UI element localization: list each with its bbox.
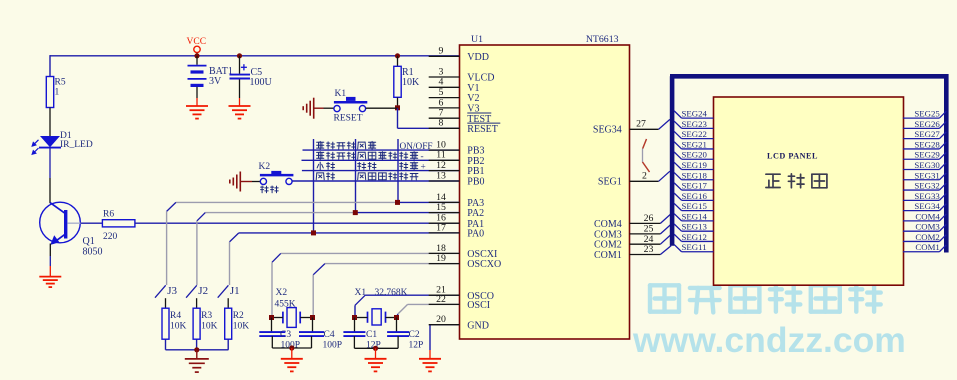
svg-text:19: 19 [436, 253, 446, 264]
svg-text:C3: C3 [280, 330, 291, 340]
svg-text:8: 8 [439, 118, 444, 129]
label key row2 [317, 152, 424, 162]
wire row pin11 [302, 159, 460, 161]
svg-text:VCC: VCC [187, 37, 207, 47]
wire panel right SEG32 [903, 181, 946, 191]
svg-text:C2: C2 [409, 330, 420, 340]
svg-text:1: 1 [55, 88, 60, 98]
svg-text:23: 23 [644, 244, 654, 255]
svg-text:SEG28: SEG28 [914, 139, 940, 149]
node PA0/col1 junction [311, 230, 316, 235]
wire panel left SEG19 [674, 160, 713, 170]
svg-text:26: 26 [644, 213, 654, 224]
pin 19 OSCXO [429, 253, 502, 270]
wire panel right SEG27 [903, 129, 946, 139]
bus squiggle (omitted wires) [643, 139, 650, 172]
wire panel left SEG22 [674, 129, 713, 139]
svg-text:C1: C1 [366, 330, 377, 340]
svg-text:2: 2 [642, 171, 647, 182]
pin 21 OSCO [429, 285, 494, 302]
resistor R4 10K [162, 308, 187, 339]
svg-text:www.cndzz.com: www.cndzz.com [632, 320, 906, 360]
svg-text:SEG27: SEG27 [914, 129, 940, 139]
ground under Q1 [39, 277, 61, 288]
wire panel left SEG18 [674, 170, 713, 180]
wire panel left SEG12 [674, 232, 713, 242]
wire J3 to R4 [165, 298, 167, 308]
svg-text:SEG25: SEG25 [914, 109, 940, 119]
svg-text:SEG34: SEG34 [914, 201, 940, 211]
svg-text:3V: 3V [209, 76, 222, 87]
svg-text:RESET: RESET [467, 124, 498, 135]
pin 3 VLCD [429, 66, 495, 83]
svg-text:COM1: COM1 [915, 242, 939, 252]
wire pulldown bottom rail [166, 349, 229, 351]
wire R6 to PA1 pin16 [135, 222, 460, 224]
pin 14 PA3 [429, 192, 484, 209]
node X2 ground junction [289, 345, 294, 350]
wire PA0 route to J1 [230, 233, 460, 285]
wire row pin12 [302, 170, 460, 172]
svg-text:9: 9 [439, 46, 444, 57]
svg-text:SEG20: SEG20 [682, 150, 708, 160]
node VCC junction [194, 53, 199, 58]
wire panel right SEG31 [903, 170, 946, 180]
svg-text:SEG21: SEG21 [682, 139, 707, 149]
svg-text:SEG22: SEG22 [682, 129, 707, 139]
bus frame thick [670, 74, 946, 253]
node X2 right junction [310, 315, 315, 320]
ground at K1 (sideways) [303, 98, 314, 119]
resistor R2 10K [225, 308, 250, 339]
pin 18 OSCXI [429, 243, 498, 260]
wire panel right COM1 [903, 242, 946, 252]
svg-text:VDD: VDD [467, 52, 489, 63]
wire panel right SEG26 [903, 119, 946, 129]
wire panel left SEG14 [674, 211, 713, 221]
svg-text:R3: R3 [201, 311, 212, 321]
wire X1 bottom [354, 347, 398, 349]
wire panel right COM3 [903, 222, 946, 232]
wire panel left SEG23 [674, 119, 713, 129]
svg-text:8050: 8050 [83, 247, 103, 258]
pin 8 RESET [429, 118, 501, 135]
svg-text:K1: K1 [335, 89, 347, 99]
svg-text:PA0: PA0 [467, 229, 484, 240]
wire PA2 route to J2 [197, 213, 460, 285]
wire PA3 route to J3 [167, 202, 460, 285]
svg-text:SEG34: SEG34 [593, 125, 622, 136]
wire ground to K2 [252, 181, 260, 183]
svg-text:27: 27 [636, 119, 646, 130]
svg-text:R6: R6 [103, 210, 114, 220]
wire panel right COM2 [903, 232, 946, 242]
capacitor C2 12P [387, 318, 423, 351]
ground at K2 (sideways) [230, 172, 241, 192]
pin 27 SEG34 wire [630, 119, 670, 130]
pin 5 V2 [429, 87, 480, 104]
wire panel right SEG34 [903, 201, 946, 211]
pin 24 COM wire [630, 234, 672, 245]
svg-text:R5: R5 [55, 78, 66, 88]
wire R2 bottom [227, 339, 229, 350]
svg-text:SEG17: SEG17 [682, 181, 708, 191]
transistor Q1 8050 [40, 202, 103, 257]
svg-text:COM4: COM4 [915, 211, 940, 221]
pin 22 OSCI [429, 294, 490, 311]
svg-text:22: 22 [436, 294, 446, 305]
svg-text:15: 15 [436, 202, 446, 213]
node PA2/col2 junction [353, 210, 358, 215]
svg-text:OSCI: OSCI [467, 300, 490, 311]
node X2 left junction [269, 315, 274, 320]
svg-text:ON/OFF: ON/OFF [400, 142, 433, 152]
node C5 junction [237, 53, 242, 58]
diode D1 IR_LED [32, 131, 93, 154]
svg-text:COM4: COM4 [594, 219, 622, 230]
svg-text:OSCXO: OSCXO [467, 259, 501, 270]
svg-text:10K: 10K [201, 321, 218, 331]
svg-text:SEG15: SEG15 [682, 201, 708, 211]
resistor R1 10K [394, 56, 420, 108]
wire panel left SEG17 [674, 181, 713, 191]
svg-text:32.768K: 32.768K [375, 288, 408, 298]
wire panel left SEG20 [674, 150, 713, 160]
svg-text:12: 12 [436, 160, 446, 171]
LCD panel body [714, 97, 904, 285]
svg-text:SEG1: SEG1 [598, 177, 622, 188]
svg-text:GND: GND [467, 320, 489, 331]
label 正视图 [766, 174, 827, 188]
label key row4 [316, 173, 418, 180]
wire panel left SEG21 [674, 139, 713, 149]
svg-text:X1: X1 [355, 288, 367, 298]
wire panel right SEG28 [903, 139, 946, 149]
jumper J2 [186, 285, 208, 298]
wire pin20 GND route [430, 325, 460, 359]
label key row3 [317, 162, 426, 173]
label key row1 [317, 141, 433, 151]
pin 7 TEST [429, 108, 492, 125]
svg-text:SEG24: SEG24 [682, 109, 708, 119]
svg-text:SEG18: SEG18 [682, 170, 708, 180]
ground at pin20 [419, 359, 441, 372]
svg-text:PB0: PB0 [467, 177, 484, 188]
svg-text:13: 13 [436, 170, 446, 181]
node X1 ground junction [373, 346, 378, 351]
svg-text:J3: J3 [167, 285, 177, 297]
svg-text:10K: 10K [233, 321, 250, 331]
battery BAT1 3V [188, 56, 233, 106]
pin 9 VDD [429, 46, 489, 63]
pin 26 COM wire [630, 213, 672, 224]
ground under X2 [291, 348, 293, 359]
crystal X1 32.768K [355, 288, 408, 325]
svg-text:SEG14: SEG14 [682, 211, 708, 221]
svg-text:20: 20 [436, 314, 446, 325]
wire key column 1 [313, 139, 315, 233]
svg-text:PA2: PA2 [467, 208, 484, 219]
svg-text:R2: R2 [233, 311, 244, 321]
wire panel left SEG16 [674, 191, 713, 201]
node X1 left junction [352, 315, 357, 320]
wire panel left SEG13 [674, 222, 713, 232]
svg-text:K2: K2 [259, 162, 271, 172]
svg-text:NT6613: NT6613 [586, 34, 619, 45]
node R1 bottom junction [395, 105, 400, 110]
pin 15 PA2 [429, 202, 484, 219]
svg-text:SEG30: SEG30 [914, 160, 940, 170]
wire panel right SEG29 [903, 150, 946, 160]
svg-text:COM3: COM3 [915, 222, 940, 232]
svg-text:12P: 12P [409, 341, 424, 351]
wire R3 bottom [196, 339, 198, 350]
wire pin21 OSCO route [355, 295, 460, 316]
svg-text:SEG31: SEG31 [914, 170, 939, 180]
switch K2 时钟 [259, 162, 294, 193]
wire left rail top [49, 55, 51, 76]
wire Q1 emitter to ground [49, 244, 51, 257]
node PA3/col3 junction [395, 200, 400, 205]
wire D1 to Q1 [49, 148, 51, 178]
svg-text:SEG13: SEG13 [682, 222, 708, 232]
svg-text:J1: J1 [230, 285, 240, 297]
svg-text:SEG12: SEG12 [682, 232, 707, 242]
wire row pin10 [303, 149, 460, 151]
pin 6 V3 [429, 97, 480, 114]
svg-text:C4: C4 [324, 330, 335, 340]
svg-text:10K: 10K [170, 321, 187, 331]
svg-text:100U: 100U [250, 77, 273, 88]
pin 25 COM wire [630, 224, 672, 235]
svg-text:LCD PANEL: LCD PANEL [767, 151, 818, 160]
svg-text:SEG26: SEG26 [914, 119, 940, 129]
svg-text:SEG32: SEG32 [914, 181, 939, 191]
pin 11 PB2 [429, 150, 485, 167]
power VCC [187, 37, 207, 56]
wire R5 to D1 [49, 108, 51, 137]
pin 20 GND [429, 314, 489, 331]
capacitor C5 100U polarized [230, 56, 273, 106]
resistor R5 1 [46, 77, 66, 108]
resistor R3 10K [193, 308, 218, 339]
svg-text:J2: J2 [198, 285, 208, 297]
svg-text:+: + [421, 162, 426, 172]
wire row pin13 [292, 180, 459, 182]
wire panel right SEG33 [903, 191, 946, 201]
svg-text:SEG23: SEG23 [682, 119, 708, 129]
svg-text:COM2: COM2 [915, 232, 939, 242]
switch K1 RESET [334, 89, 368, 124]
svg-text:SEG29: SEG29 [914, 150, 940, 160]
wire panel right COM4 [903, 211, 946, 221]
pin 13 PB0 [429, 170, 485, 187]
svg-text:COM1: COM1 [594, 250, 622, 261]
ground under X1 [375, 348, 377, 359]
capacitor C4 100P [299, 318, 342, 351]
jumper J1 [218, 285, 240, 298]
pin 10 PB3 [429, 140, 485, 157]
wire J1 to R2 [227, 298, 229, 308]
wire panel left SEG24 [674, 109, 713, 119]
svg-text:-: - [421, 152, 424, 162]
svg-text:R4: R4 [170, 311, 181, 321]
crystal X2 455K [272, 288, 313, 328]
wire panel left SEG11 [674, 242, 713, 252]
wire pin22 OSCI route [397, 304, 460, 316]
wire junction to pin8 [397, 108, 399, 128]
ground under pulldown resistors [196, 350, 198, 359]
wire panel right SEG25 [903, 109, 946, 119]
wire pin18 OSCXI route [272, 253, 460, 316]
svg-text:U1: U1 [471, 34, 483, 45]
node X1 right junction [394, 315, 399, 320]
wire panel right SEG30 [903, 160, 946, 170]
node R1 top junction [395, 53, 400, 58]
svg-text:SEG11: SEG11 [682, 242, 707, 252]
pin 12 PB1 [429, 160, 485, 177]
pin 2 SEG1 wire [630, 171, 670, 182]
wire panel left SEG15 [674, 201, 713, 211]
svg-text:17: 17 [436, 222, 446, 233]
wire ground to K1 [324, 107, 334, 109]
svg-text:10K: 10K [402, 77, 420, 88]
wire key column 3 [397, 139, 399, 202]
svg-text:SEG19: SEG19 [682, 160, 708, 170]
pin 16 PA1 [429, 213, 484, 230]
svg-text:220: 220 [103, 232, 118, 242]
capacitor C1 12P [343, 318, 380, 351]
wire K1 to junction [366, 107, 398, 109]
wire key column 2 [355, 139, 357, 213]
ground under BAT1 [186, 106, 208, 119]
svg-text:PB1: PB1 [467, 166, 484, 177]
svg-text:Q1: Q1 [83, 236, 95, 247]
pin 23 COM wire [630, 244, 672, 255]
svg-text:X2: X2 [276, 288, 288, 298]
svg-text:100P: 100P [323, 340, 343, 350]
wire J2 to R3 [196, 298, 198, 308]
svg-text:RESET: RESET [334, 114, 363, 124]
pin 17 PA0 [429, 222, 484, 239]
wire VCC top rail [50, 55, 460, 57]
resistor R6 220 [102, 210, 134, 243]
jumper J3 [155, 285, 177, 298]
wire pin19 OSCXO route [313, 264, 459, 316]
svg-text:SEG16: SEG16 [682, 191, 708, 201]
wire R4 bottom [165, 339, 167, 350]
op-amp U1 NT6613 IC body [460, 45, 630, 339]
watermark 电子电路图站 [650, 285, 881, 313]
pin 4 V1 [429, 77, 480, 94]
wire X2 bottom [272, 347, 311, 349]
svg-text:SEG33: SEG33 [914, 191, 940, 201]
ground under C5 [229, 106, 251, 119]
node pulldown junction [194, 347, 199, 352]
capacitor C3 100P [259, 318, 300, 351]
svg-text:IR_LED: IR_LED [60, 140, 93, 150]
